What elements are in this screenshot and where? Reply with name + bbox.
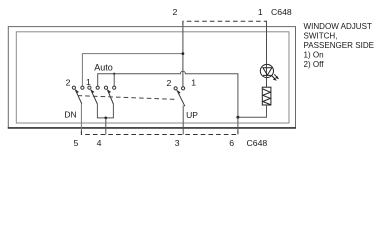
wire pin4 [105,118,107,135]
switch A (DN) contacts [72,86,75,89]
lamp L1 (illumination LED) [260,64,273,77]
connector label C648 (top) [271,7,292,17]
UP label [186,110,198,120]
svg-text:5: 5 [73,138,78,148]
svg-text:1: 1 [191,78,196,88]
junction dot pin6 net [236,116,239,119]
svg-text:C648: C648 [247,138,268,148]
net wire from switch A contact 1 up and right to pin2 wire [82,54,182,86]
LED emission arrows [272,76,276,80]
Auto label [94,63,113,73]
svg-text:UP: UP [186,110,198,120]
LED cathode bar [263,74,272,76]
svg-text:4: 4 [97,138,102,148]
switch A label 2 [66,78,71,88]
wire resistor bottom to junction, then to pin6 [238,105,267,117]
outer frame bottom edge (darker) [8,127,296,129]
svg-text:1) On: 1) On [304,51,324,60]
switch B blade [91,90,98,104]
pin 4 label (bottom) [97,138,102,148]
wire blade A to pin5 [80,104,82,135]
switch A blade [75,90,82,104]
svg-text:PASSENGER SIDE: PASSENGER SIDE [304,41,375,50]
UP switch label 1 [191,78,196,88]
wire pin2 down to UP switch [182,21,184,86]
wire blade UP to pin3 [182,106,184,135]
svg-text:3: 3 [175,138,180,148]
svg-text:Auto: Auto [94,63,113,73]
connector C648 bottom dashed bracket [81,131,238,135]
inner frame [16,32,289,123]
svg-text:6: 6 [229,138,234,148]
svg-text:DN: DN [64,109,76,119]
junction dot pin4 [104,117,107,120]
pin 5 label (bottom) [73,138,78,148]
svg-text:C648: C648 [271,7,292,17]
mechanical link dashed line [78,96,177,100]
switch A label 1 [86,77,91,87]
svg-text:2: 2 [66,78,71,88]
wire pin1 down to lamp [266,21,268,65]
svg-text:1: 1 [258,7,263,17]
switch C blade [107,90,113,104]
svg-text:2: 2 [166,78,171,88]
junction dot on pin2 wire [182,52,185,55]
U bracket joining blades B and C [97,104,113,118]
resistor R (behind lamp) [262,87,271,105]
component description text [304,22,372,31]
svg-text:2: 2 [172,7,177,17]
switch C contacts [104,86,107,89]
svg-text:WINDOW ADJUST: WINDOW ADJUST [304,22,372,31]
Auto net drop to switch C contact [113,74,115,86]
pin 3 label (bottom) [175,138,180,148]
pin 2 label (top) [172,7,177,17]
UP switch label 2 [166,78,171,88]
DN label [64,109,76,119]
pin 1 label (top) [258,7,263,17]
Auto net wire: bracket over contacts with hop over pin2 wire, to right side down [98,71,238,117]
UP switch contacts [174,87,177,90]
connector label C648 (bottom) [247,138,268,148]
switch B contacts [88,86,91,89]
connector C648 top dashed bracket [183,21,267,25]
svg-text:1: 1 [86,77,91,87]
outer frame [8,27,295,128]
pin 6 label (bottom) [229,138,234,148]
UP switch blade [177,90,185,106]
svg-text:SWITCH,: SWITCH, [304,32,338,41]
LED triangle [263,68,272,75]
svg-text:2) Off: 2) Off [304,60,325,69]
wire pin6 down [237,117,239,134]
